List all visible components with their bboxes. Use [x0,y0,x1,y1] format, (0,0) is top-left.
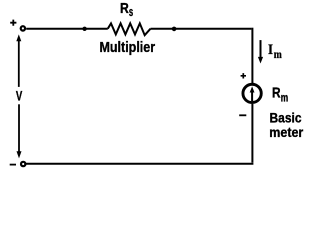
svg-text:I: I [268,42,273,58]
svg-text:meter: meter [269,124,303,140]
label Rs [120,0,133,19]
minus sign (meter polarity) [239,114,246,116]
label Basic meter [269,110,303,140]
voltage arrow V upper (pointing up) [16,34,21,87]
voltage arrow V lower (pointing down) [17,104,22,158]
wire: right vertical, corner down to meter [251,28,253,83]
plus sign top-left [10,20,16,26]
svg-text:m: m [281,93,288,105]
meter arrow (inside, pointing up) [250,86,255,101]
svg-text:R: R [120,0,129,17]
meter M1 (circle) [243,84,261,102]
wire: top-left terminal to resistor [26,28,108,30]
wire: meter bottom to bottom-right corner [251,104,253,163]
resistor Rs [108,23,151,35]
svg-text:s: s [129,5,133,19]
label Rm [272,85,288,105]
junction dot A [82,27,86,31]
label V [16,87,23,103]
svg-text:m: m [274,47,282,61]
label Im [268,42,282,61]
svg-text:V: V [16,87,23,103]
svg-text:R: R [272,85,281,102]
arrow Im (current direction) [258,40,263,63]
svg-text:Multiplier: Multiplier [100,40,156,56]
label Multiplier [100,40,156,56]
wire: resistor to top-right corner [151,28,252,30]
wire: bottom [26,163,254,165]
plus sign (meter polarity) [241,73,246,78]
terminal T2 (bottom-left, −) [21,162,25,166]
minus sign bottom-left [10,164,16,166]
junction dot B [172,27,177,32]
terminal T1 (top-left, +) [21,26,25,30]
